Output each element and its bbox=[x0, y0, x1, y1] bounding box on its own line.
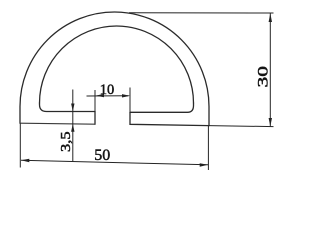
svg-text:50: 50 bbox=[94, 147, 110, 164]
arrowhead dim50 left bbox=[21, 159, 29, 162]
extension line: notch right wall upward bbox=[129, 88, 131, 113]
svg-text:3,5: 3,5 bbox=[59, 131, 74, 152]
arrowhead dim3.5 upper (points down at flange top) bbox=[71, 104, 74, 112]
dimension line 10 bbox=[87, 95, 129, 97]
arrowhead dim30 bottom bbox=[269, 118, 272, 126]
extension line: right foot bottom to right for dim 30 bbox=[209, 126, 274, 127]
dimension line 3,5 vertical bbox=[72, 90, 74, 162]
arrowhead dim10 left bbox=[96, 94, 104, 97]
bottom left foot line bbox=[20, 123, 95, 124]
extension line: left outer wall downward for dim 50 bbox=[19, 123, 21, 167]
extension line: notch left wall upward bbox=[94, 90, 96, 112]
outer profile arc and side walls bbox=[20, 12, 209, 126]
arrowhead dim30 top bbox=[269, 13, 272, 22]
arrowhead dim50 right bbox=[200, 163, 208, 166]
extension line: top of arc to right for dim 30 bbox=[129, 12, 274, 14]
dimension line 30 vertical bbox=[269, 13, 271, 126]
arrowhead dim3.5 lower (points up at foot bottom) bbox=[71, 124, 74, 132]
svg-text:30: 30 bbox=[256, 66, 272, 88]
svg-text:10: 10 bbox=[100, 82, 115, 98]
left inner wall with fillet into left flange top bbox=[40, 103, 96, 112]
left notch wall (flange tip) bbox=[94, 112, 96, 125]
bottom right foot outline bbox=[130, 112, 209, 125]
right flange top surface with fillet into inner wall bbox=[130, 103, 194, 112]
inner arc bbox=[40, 26, 194, 103]
dimension line 50 bbox=[21, 160, 208, 165]
extension line: right outer wall downward for dim 50 bbox=[207, 126, 209, 170]
arrowhead dim10 right bbox=[122, 94, 130, 97]
